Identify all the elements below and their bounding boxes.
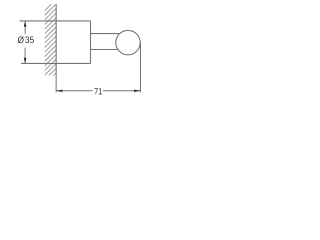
stem top line <box>91 33 120 35</box>
dia dimension arrow up <box>24 21 27 27</box>
71 dimension line left segment <box>56 90 93 92</box>
71 dimension line right segment <box>103 90 141 92</box>
71 dimension arrow right <box>134 90 141 92</box>
dia dimension arrow down <box>24 58 27 63</box>
71 dimension left extension line <box>55 75 57 92</box>
71 dimension right extension line <box>140 43 142 93</box>
dia dimension line lower segment <box>24 48 26 64</box>
dia dimension line upper segment <box>24 21 26 34</box>
71 dimension arrow left <box>56 90 63 92</box>
label dia 35 <box>18 36 34 43</box>
flange bottom edge with dimension extension line <box>21 62 91 64</box>
label 71 <box>94 88 101 94</box>
flange right edge <box>90 21 92 64</box>
wall face line <box>55 4 57 75</box>
wall hatching <box>40 0 62 89</box>
knob circle <box>116 30 140 54</box>
stem bottom line <box>91 49 119 51</box>
flange top edge with dimension extension line <box>20 20 91 22</box>
